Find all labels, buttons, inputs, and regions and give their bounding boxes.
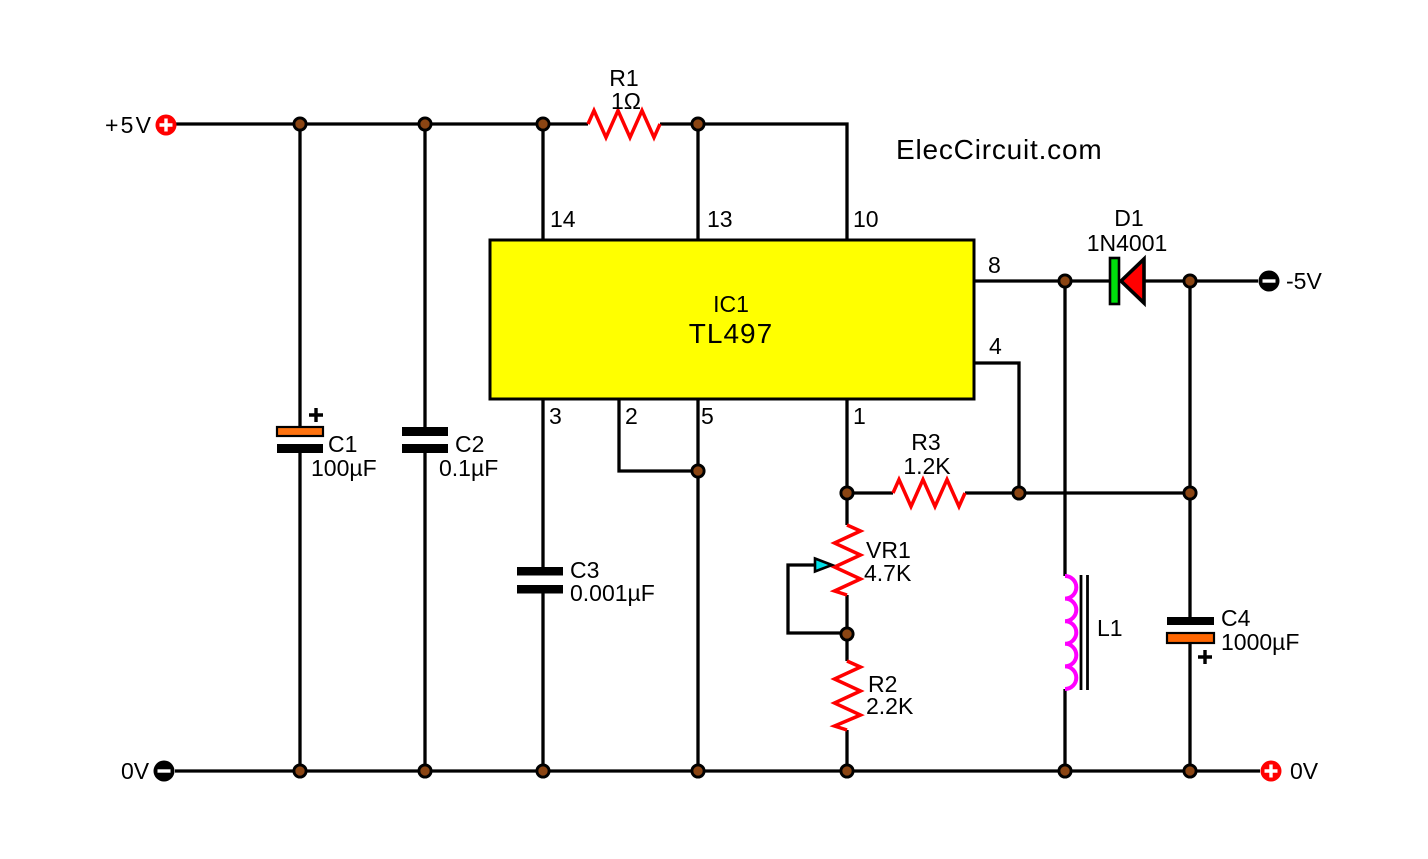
junction dot top rail C1	[294, 118, 306, 130]
svg-text:4: 4	[989, 333, 1002, 359]
resistor R2 zigzag	[835, 661, 861, 730]
wire VR1 bottom stub	[845, 595, 848, 634]
capacitor C3 bottom plate	[517, 585, 563, 594]
svg-text:C2: C2	[455, 431, 484, 457]
svg-text:1N4001: 1N4001	[1087, 230, 1168, 256]
capacitor C4 orange plate (+)	[1167, 633, 1214, 643]
svg-text:1000µF: 1000µF	[1221, 629, 1299, 655]
capacitor C1 black plate	[277, 444, 323, 453]
svg-text:10: 10	[853, 206, 879, 232]
svg-text:TL497: TL497	[689, 318, 773, 349]
VR1 wiper arrow	[815, 559, 832, 572]
wire top +5V rail left of R1	[176, 122, 588, 125]
wire pin 14 stub	[541, 124, 544, 240]
inductor L1 core line 2	[1086, 575, 1089, 690]
svg-text:IC1: IC1	[713, 291, 749, 317]
wire pin 1 stub down	[845, 398, 848, 493]
junction dot 0V rail pin5	[692, 765, 704, 777]
diode D1 cathode bar (green)	[1110, 258, 1119, 304]
svg-text:0.001µF: 0.001µF	[570, 580, 655, 606]
junction dot VR1-R2	[841, 628, 853, 640]
wire R2 bottom stub	[845, 730, 848, 771]
wire C2 branch upper	[423, 124, 426, 428]
svg-text:13: 13	[707, 206, 733, 232]
svg-text:3: 3	[549, 403, 562, 429]
junction dot top rail C2	[419, 118, 431, 130]
svg-text:-5V: -5V	[1286, 268, 1322, 294]
resistor R3 zigzag	[893, 480, 965, 507]
svg-text:L1: L1	[1097, 615, 1123, 641]
+5V terminal (red plus circle)	[156, 115, 177, 136]
junction dot top rail pin14	[537, 118, 549, 130]
svg-text:D1: D1	[1114, 205, 1143, 231]
junction dot pin8-L1	[1059, 275, 1071, 287]
svg-text:1Ω: 1Ω	[611, 88, 641, 114]
junction dot 0V rail C1	[294, 765, 306, 777]
svg-text:2: 2	[625, 403, 638, 429]
svg-text:100µF: 100µF	[311, 455, 377, 481]
junction dot pin2-pin5	[692, 465, 704, 477]
svg-text:C1: C1	[328, 431, 357, 457]
svg-text:0.1µF: 0.1µF	[439, 455, 498, 481]
wire bottom 0V rail	[175, 769, 1260, 772]
wire C1 branch lower	[298, 452, 301, 771]
potentiometer VR1 zigzag	[835, 525, 861, 595]
svg-text:1: 1	[853, 403, 866, 429]
capacitor C2 top plate	[402, 427, 448, 436]
wire L1 column lower	[1063, 689, 1066, 771]
wire feedback row pin1 to R3	[847, 491, 893, 494]
wire pin 3 to C3	[541, 398, 544, 568]
svg-text:14: 14	[550, 206, 576, 232]
svg-text:2.2K: 2.2K	[866, 693, 914, 719]
C4 plus sign	[1198, 650, 1212, 664]
wire pin 5 down to 0V rail	[696, 398, 699, 771]
wire C2 branch lower	[423, 452, 426, 771]
svg-text:+5V: +5V	[105, 112, 153, 138]
svg-text:ElecCircuit.com: ElecCircuit.com	[896, 134, 1102, 165]
C1 plus sign	[309, 408, 323, 422]
svg-text:0V: 0V	[1290, 758, 1319, 784]
svg-text:8: 8	[988, 252, 1001, 278]
op-amp IC1 body TL497	[490, 240, 974, 399]
inductor L1 coil	[1065, 576, 1076, 689]
wire C3 to 0V rail	[541, 593, 544, 771]
wire C4 column upper	[1188, 281, 1191, 617]
wire C1 branch upper	[298, 124, 301, 428]
svg-text:1.2K: 1.2K	[903, 453, 951, 479]
capacitor C2 bottom plate	[402, 444, 448, 453]
junction dot feedback-output column	[1184, 487, 1196, 499]
wire feedback row R3 to output column	[965, 491, 1190, 494]
inductor L1 core line 1	[1080, 575, 1083, 690]
wire pin 4 jog down to feedback row	[974, 363, 1019, 493]
wire pin 8 row to -5V terminal	[974, 279, 1258, 282]
wire pin 2 jog to pin 5 net	[619, 398, 698, 471]
wire pin 13 stub	[696, 124, 699, 240]
junction dot 0V rail R2	[841, 765, 853, 777]
wire L1 column upper	[1063, 281, 1066, 576]
svg-text:5: 5	[701, 403, 714, 429]
0V right terminal (red plus circle)	[1261, 761, 1282, 782]
junction dot 0V rail C3	[537, 765, 549, 777]
junction dot 0V rail C4	[1184, 765, 1196, 777]
resistor R1 zigzag	[588, 111, 660, 138]
0V left terminal (black minus circle)	[154, 761, 175, 782]
junction dot R3-pin4	[1013, 487, 1025, 499]
svg-text:4.7K: 4.7K	[864, 560, 912, 586]
svg-text:C4: C4	[1221, 605, 1251, 631]
capacitor C1 orange plate (+)	[277, 427, 323, 436]
wire C4 column lower	[1188, 643, 1191, 771]
svg-text:R3: R3	[911, 429, 940, 455]
wire R2 top stub	[845, 634, 848, 661]
junction dot diode-output	[1184, 275, 1196, 287]
junction dot top rail pin13	[692, 118, 704, 130]
wire top rail right of R1 with corner down to pin 10	[660, 124, 847, 240]
svg-text:0V: 0V	[121, 758, 150, 784]
wire VR1 top stub	[845, 493, 848, 525]
capacitor C4 black plate	[1167, 617, 1214, 625]
capacitor C3 top plate	[517, 567, 563, 576]
junction dot 0V rail L1	[1059, 765, 1071, 777]
diode D1 anode triangle (red)	[1121, 259, 1144, 303]
junction dot pin1-R3	[841, 487, 853, 499]
wire VR1 wiper elbow	[788, 565, 847, 633]
-5V terminal (black minus circle)	[1259, 271, 1280, 292]
junction dot 0V rail C2	[419, 765, 431, 777]
